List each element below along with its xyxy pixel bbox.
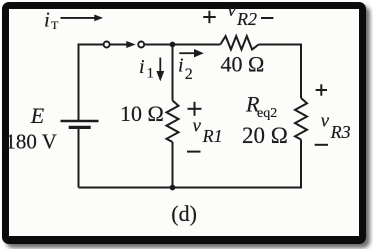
svg-text:eq2: eq2 (257, 106, 277, 121)
svg-text:i: i (178, 55, 184, 77)
svg-text:i: i (139, 56, 145, 78)
svg-text:R3: R3 (330, 122, 351, 142)
svg-text:E: E (30, 103, 45, 128)
terminal circle 1 (104, 42, 110, 48)
resistor Req2 zigzag (20 ohm) (295, 98, 307, 140)
svg-text:1: 1 (147, 65, 155, 81)
svg-text:T: T (51, 18, 59, 32)
svg-text:v: v (321, 110, 330, 131)
svg-text:R2: R2 (236, 9, 257, 29)
i2 current arrow (179, 49, 204, 57)
battery E long plate (61, 120, 99, 122)
svg-text:R1: R1 (202, 126, 223, 146)
wire: R2 to top-right corner then down to Req2 (259, 45, 301, 99)
svg-text:20 Ω: 20 Ω (242, 123, 288, 148)
svg-text:10 Ω: 10 Ω (120, 101, 164, 126)
current direction arrowhead between terminals (126, 41, 135, 48)
wire: terminal circle 1 to current arrowhead (109, 44, 127, 46)
svg-text:2: 2 (185, 66, 193, 83)
plus sign of vR3 (316, 84, 327, 95)
minus sign of vR2 (261, 17, 273, 19)
minus sign of vR3 (315, 144, 328, 146)
svg-text:v: v (228, 0, 237, 21)
svg-text:v: v (193, 115, 202, 136)
resistor R1 zigzag (10 ohm) (167, 101, 179, 143)
i1 current arrow (156, 58, 164, 82)
plus sign of vR1 (188, 102, 202, 116)
minus sign of vR1 (187, 151, 201, 153)
wire: terminal circle 2 to node A and on to R2 (144, 44, 220, 46)
resistor R2 zigzag (40 ohm) (220, 36, 258, 49)
plus sign of vR2 (203, 11, 216, 23)
svg-text:40 Ω: 40 Ω (221, 52, 265, 77)
battery E short plate (69, 126, 91, 129)
wire: node A down to R1 (172, 45, 174, 101)
wire: Req2 down to bottom-right corner then left along bottom to battery (79, 140, 302, 188)
iT current arrow (61, 15, 104, 22)
node A junction dot (170, 42, 176, 48)
bottom junction dot (170, 185, 176, 191)
svg-text:(d): (d) (171, 201, 197, 226)
svg-text:i: i (44, 8, 50, 32)
wire: R1 down to bottom node (172, 142, 174, 188)
wire: battery top up to top-left corner then right to terminal circle 1 (79, 45, 104, 122)
terminal circle 2 (138, 42, 144, 48)
svg-text:180 V: 180 V (5, 130, 57, 154)
wire: battery bottom plate down to bottom wire (78, 129, 80, 188)
